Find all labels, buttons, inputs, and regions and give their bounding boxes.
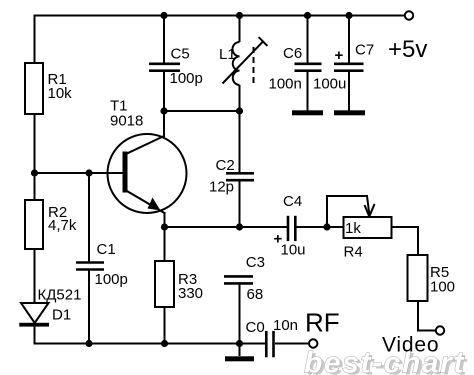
wire L1 bottom to C2 [239,85,241,173]
capacitor C3 [224,276,253,283]
junction node top L1 [236,12,243,19]
wire L1 top [239,16,241,43]
watermark best-chart [304,347,468,375]
wire C6 to ground [307,71,309,111]
capacitor C0 [266,331,273,357]
wire R2 to D1 [34,249,36,304]
svg-text:1k: 1k [345,220,361,237]
junction node emitter [161,223,168,230]
transistor T1 circle [108,134,187,213]
wire C2 to emitter node [239,181,241,227]
svg-text:10n: 10n [273,317,298,334]
wire C1 to bottom rail [88,270,90,344]
svg-text:100p: 100p [170,70,203,87]
capacitor C5 [149,64,180,71]
capacitor C6 [295,64,322,71]
svg-text:КД521: КД521 [38,287,82,304]
wire C4 to R4 [295,226,343,228]
svg-text:C4: C4 [283,193,302,210]
svg-text:L1: L1 [219,46,236,63]
wire C3 to bottom rail [239,284,241,344]
svg-text:C6: C6 [283,45,302,62]
wire C7 to ground [348,71,350,111]
svg-text:68: 68 [247,286,264,303]
transistor T1 collector lead [126,111,164,154]
capacitor C1 [76,263,104,270]
svg-text:330: 330 [178,285,203,302]
junction node collector row [160,107,167,114]
capacitor C2 [226,173,254,180]
svg-text:C1: C1 [97,241,116,258]
svg-text:R4: R4 [344,244,363,261]
wire R4 wiper loop [327,196,369,226]
wire R4 arrowhead [365,204,375,217]
svg-text:100n: 100n [269,76,302,93]
transistor T1 base bar [123,152,128,193]
junction node rail C1 [85,340,92,347]
diode D1 triangle [21,303,49,323]
ground symbol C3 [225,356,254,361]
junction node top C6 [304,12,311,19]
wire collector node row to L1 [164,110,240,112]
wire bottom ground rail [34,343,267,345]
wire C6 branch [307,16,309,64]
wire D1 to bottom rail [34,325,36,343]
junction node rail C3 [236,340,243,347]
junction node L1 bottom [236,107,243,114]
inductor L1 core dashed line [253,47,255,83]
svg-text:+5v: +5v [388,36,427,63]
wire C5 bottom to collector node [163,71,165,137]
svg-text:Video: Video [382,334,439,357]
junction node base row left [31,169,38,176]
junction node rail R3 [161,340,168,347]
inductor L1 [233,42,240,85]
inductor L1 tuning arrow [223,37,268,83]
wire C0 to RF terminal [275,343,309,345]
resistor R3 [155,261,174,307]
junction node top C5 [160,12,167,19]
wire C7 branch [348,16,350,64]
svg-text:C7: C7 [355,42,374,59]
ground symbol C7 [334,110,365,115]
svg-text:100p: 100p [95,271,128,288]
resistor R2 [25,200,43,249]
diode D1 cathode bar [19,323,49,327]
transistor T1 emitter lead [126,191,165,214]
wire top +5v rail [35,16,405,63]
svg-text:4,7k: 4,7k [48,217,77,234]
svg-text:10k: 10k [48,85,73,102]
wire emitter row to C4 [165,226,289,228]
wire R3 bottom [164,307,166,344]
wire C1 branch [88,173,90,262]
junction node R4 left [323,223,330,230]
resistor R5 [408,255,428,301]
capacitor C7 [334,64,364,71]
svg-text:C3: C3 [246,254,265,271]
wire R4 to R5 [392,227,419,255]
junction node top C7 [345,12,352,19]
terminal Video [436,326,444,334]
ground symbol C6 [292,110,323,115]
terminal +5v [405,11,413,19]
wire R5 to Video terminal [418,301,436,331]
potentiometer R4 [344,217,392,238]
svg-text:C5: C5 [171,46,190,63]
wire R1 bottom to junction [34,114,36,201]
svg-text:D1: D1 [52,307,71,324]
svg-text:12p: 12p [209,179,234,196]
resistor R1 [25,63,43,114]
junction node C2 C3 [236,223,243,230]
svg-text:10u: 10u [281,242,306,259]
terminal RF [309,339,317,347]
transistor T1 emitter arrow [148,198,161,211]
wire C3 node to ground [239,344,241,357]
capacitor C4 [288,216,295,241]
svg-text:100: 100 [430,279,455,296]
svg-text:+: + [335,47,344,64]
junction node base row C1 [85,169,92,176]
svg-text:9018: 9018 [110,113,143,130]
wire C5 top [163,16,165,64]
svg-text:C0: C0 [246,319,265,336]
wire base row [35,172,124,174]
svg-text:C2: C2 [216,157,235,174]
svg-text:100u: 100u [313,76,346,93]
svg-text:RF: RF [305,308,340,338]
wire emitter vertical [164,212,166,261]
